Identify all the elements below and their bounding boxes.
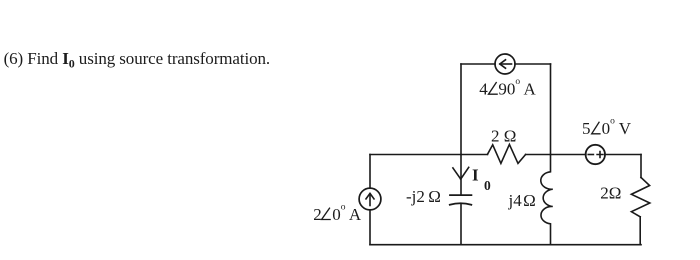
wire middle (resistor to voltage source)	[526, 154, 586, 156]
svg-text:-j2 Ω: -j2 Ω	[406, 187, 441, 206]
svg-text:0o A: 0o A	[332, 203, 362, 225]
svg-text:(6) Find I0 using source trans: (6) Find I0 using source transformation.	[4, 49, 270, 71]
inductor L1 (j4 Ohm)	[541, 155, 553, 245]
capacitor C1 bottom plate	[450, 203, 472, 205]
label 5&#8736;0&#176; V of V1	[582, 116, 632, 138]
svg-text:I: I	[472, 166, 479, 185]
svg-text:j4 Ω: j4 Ω	[508, 191, 536, 210]
wire top-right segment	[515, 63, 551, 65]
svg-text:0o V: 0o V	[602, 116, 632, 138]
svg-text:5: 5	[582, 119, 591, 138]
svg-text:2Ω: 2Ω	[600, 184, 621, 203]
wire bottom	[370, 244, 641, 246]
wire right vertical of top loop	[550, 64, 552, 155]
wire middle-left (node A to resistor)	[370, 154, 488, 156]
wire capacitor branch upper	[460, 155, 462, 196]
svg-text:4: 4	[479, 79, 488, 98]
current source I1 (4&#8736;90&#176; A)	[495, 54, 515, 74]
wire middle-right (voltage source to right corner)	[605, 154, 641, 156]
wire left branch upper	[369, 155, 371, 189]
arrow I0	[453, 167, 469, 179]
label 2&#8736;0&#176; A of I2	[313, 203, 362, 225]
current source I2 (2&#8736;0&#176; A)	[359, 188, 381, 210]
svg-text:0: 0	[484, 178, 491, 193]
wire right branch lower	[639, 217, 641, 245]
svg-text:2: 2	[313, 205, 322, 224]
resistor R1 2 Ohm	[488, 144, 526, 163]
svg-text:90o A: 90o A	[498, 77, 536, 99]
resistor R2 2 Ohm	[631, 178, 649, 217]
voltage source V1 (5&#8736;0&#176; V)	[586, 145, 605, 164]
capacitor C1 (-j2 Ohm) top plate	[450, 194, 471, 196]
wire left branch lower	[369, 210, 371, 245]
wire capacitor branch lower	[460, 204, 462, 245]
wire right branch upper	[640, 155, 642, 178]
svg-text:2 Ω: 2 Ω	[491, 127, 516, 146]
wire left vertical of top loop	[460, 64, 462, 155]
label 4&#8736;90&#176; A of I1	[479, 77, 536, 99]
wire top-left segment	[461, 63, 495, 65]
